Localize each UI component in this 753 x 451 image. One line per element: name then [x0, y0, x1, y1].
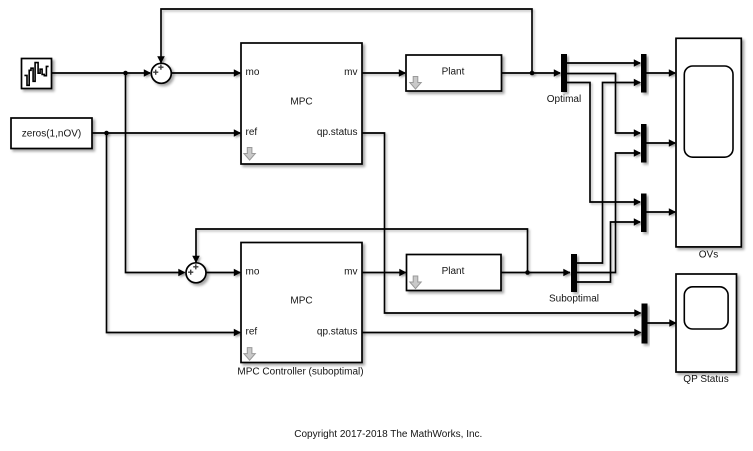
wire: branch down from source wire to Sum2	[126, 73, 185, 273]
wire: Optimal demux out3 down to Mux3 input1	[567, 83, 640, 203]
svg-text:qp.status: qp.status	[317, 327, 358, 338]
junction on zeros wire	[104, 131, 109, 136]
arrowhead into MPC mo	[234, 69, 241, 77]
demux Optimal	[561, 54, 567, 92]
svg-text:mv: mv	[344, 267, 357, 278]
wire: Optimal demux out2 down to Mux2 input1	[567, 74, 640, 134]
mux Mux1 (OV1 pair)	[641, 54, 647, 93]
sum block Sum1	[151, 63, 171, 83]
wire: Mux1 to OVs scope input1	[647, 72, 676, 74]
wire: Optimal demux out1 to Mux1 input1	[567, 62, 640, 64]
wire: Sum1 to MPC mo	[172, 72, 241, 74]
scope block OVs	[676, 38, 741, 247]
svg-text:Plant: Plant	[442, 66, 465, 77]
arrowhead into suboptimal MPC mo	[234, 269, 241, 277]
arrowhead into Plant2	[399, 269, 406, 277]
MPC Controller block (suboptimal) U2	[241, 243, 362, 363]
Plant block (suboptimal path)	[407, 255, 502, 291]
wire: source to Sum1	[52, 72, 151, 74]
wire: feedback from Plant2 out up and back to Sum2	[196, 229, 528, 273]
wire: Sum2 to suboptimal MPC mo	[207, 272, 241, 274]
arrowhead into Suboptimal demux	[563, 269, 570, 277]
constant block: zeros(1,nOV)	[11, 118, 92, 149]
svg-text:qp.status: qp.status	[317, 127, 358, 138]
wire: MPC mv to Plant	[362, 72, 405, 74]
wire: suboptimal MPC qp.status to QP mux input2	[362, 332, 641, 334]
wire: Mux3 to OVs scope input3	[647, 211, 676, 213]
wire: Suboptimal demux out2 up to Mux2 input2	[577, 153, 640, 273]
arrowhead into Sum2 left	[178, 269, 185, 277]
wire: Mux2 to OVs scope input2	[647, 142, 676, 144]
arrowhead into OVs scope input3	[669, 208, 676, 216]
sum block Sum2	[186, 263, 206, 283]
wire: top feedback from Plant out up and back to Sum1	[161, 9, 532, 73]
svg-text:zeros(1,nOV): zeros(1,nOV)	[22, 129, 81, 140]
scope block QP Status	[676, 274, 737, 372]
wire: QP mux to QP Status scope	[648, 322, 676, 324]
wire: Plant2 out to Suboptimal demux	[501, 272, 570, 274]
arrowhead into Sum1 left	[144, 69, 151, 77]
svg-text:ref: ref	[246, 127, 258, 138]
svg-text:QP Status: QP Status	[683, 374, 728, 385]
svg-text:Copyright 2017-2018 The MathWo: Copyright 2017-2018 The MathWorks, Inc.	[294, 429, 482, 440]
arrowhead into QP Status scope	[669, 319, 676, 327]
wire: Suboptimal demux out1 up to Mux1 input2	[577, 83, 640, 264]
arrowhead into MPC ref	[234, 129, 241, 137]
demux Suboptimal	[571, 254, 577, 292]
svg-text:mo: mo	[246, 267, 260, 278]
wire: Suboptimal demux out3 up to Mux3 input2	[577, 222, 640, 282]
wire: suboptimal MPC mv to Plant2	[362, 272, 406, 274]
svg-text:Optimal: Optimal	[547, 94, 581, 105]
mux Mux2 (OV2 pair)	[641, 124, 647, 163]
wire: branch down from zeros wire to suboptimal MPC ref	[107, 133, 241, 333]
source block: measurement noise (random stairs)	[22, 59, 52, 89]
arrowhead into QP mux input2	[634, 329, 641, 337]
mux QP statuses	[642, 304, 648, 344]
junction on Plant2 output	[525, 270, 530, 275]
wire: Plant out to Optimal demux	[502, 72, 561, 74]
wire: zeros constant to MPC ref	[92, 132, 240, 134]
gray variant arrow of Plant2 block	[410, 276, 421, 289]
svg-text:MPC: MPC	[290, 295, 312, 306]
arrowhead into Mux3 input1	[634, 198, 641, 206]
junction on source wire	[123, 71, 128, 76]
gray variant arrow of Plant block	[410, 77, 421, 90]
svg-text:Plant: Plant	[442, 266, 465, 277]
arrowhead into Sum1 top	[157, 56, 165, 63]
svg-text:OVs: OVs	[699, 250, 718, 261]
wire: MPC qp.status down to QP mux input1	[362, 133, 641, 313]
arrowhead into Mux1 input2	[634, 79, 641, 87]
junction on Plant output	[530, 71, 535, 76]
svg-text:MPC: MPC	[290, 96, 312, 107]
arrowhead into Sum2 top	[192, 256, 200, 263]
svg-text:Suboptimal: Suboptimal	[549, 294, 599, 305]
arrowhead into Optimal demux	[554, 69, 561, 77]
arrowhead into Mux3 input2	[634, 218, 641, 226]
arrowhead into Mux2 input1	[634, 129, 641, 137]
svg-text:MPC Controller (suboptimal): MPC Controller (suboptimal)	[237, 367, 363, 378]
arrowhead into OVs scope input2	[669, 139, 676, 147]
MPC Controller block (optimal) U1	[241, 43, 362, 164]
svg-text:ref: ref	[246, 327, 258, 338]
arrowhead into Mux2 input2	[634, 149, 641, 157]
arrowhead into Mux1 input1	[634, 59, 641, 67]
Plant block (optimal path)	[406, 55, 502, 91]
arrowhead into QP mux input1	[634, 309, 641, 317]
gray variant arrow of suboptimal MPC block	[244, 348, 255, 361]
mux Mux3 (OV3 pair)	[641, 194, 647, 233]
svg-text:mv: mv	[344, 67, 357, 78]
gray variant arrow of MPC block	[244, 148, 255, 161]
svg-text:mo: mo	[246, 67, 260, 78]
arrowhead into suboptimal MPC ref	[234, 329, 241, 337]
arrowhead into OVs scope input1	[669, 69, 676, 77]
arrowhead into Plant	[399, 69, 406, 77]
